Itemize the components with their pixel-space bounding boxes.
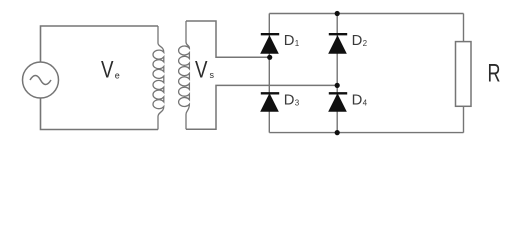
svg-text:D: D xyxy=(284,92,295,108)
resistor R body xyxy=(456,42,472,107)
svg-text:R: R xyxy=(488,61,501,88)
resistor R leads xyxy=(463,14,465,133)
wire primary loop (top rail, left side, bottom rail) xyxy=(41,26,159,130)
diode D1 xyxy=(261,34,279,53)
svg-text:s: s xyxy=(210,70,215,80)
svg-text:1: 1 xyxy=(295,39,300,48)
bridge outer rails: top rail, bottom rail xyxy=(269,14,463,133)
svg-text:e: e xyxy=(115,71,120,81)
bridge left branch wire (x=269) xyxy=(268,14,270,133)
transformer primary winding L1 xyxy=(153,26,164,130)
wire secondary top output to bridge xyxy=(186,21,270,57)
svg-text:3: 3 xyxy=(295,98,300,107)
junction dot secondary bottom / right branch xyxy=(335,83,340,88)
junction dot secondary top / left branch xyxy=(267,55,272,60)
AC source Ve symbol circle xyxy=(23,62,59,98)
junction dot bottom rail / D4 branch xyxy=(335,130,340,135)
AC source sine wave xyxy=(30,76,51,85)
svg-text:D: D xyxy=(352,33,363,49)
bridge right branch wire (x=337) xyxy=(336,14,338,133)
diode D2 xyxy=(329,34,347,53)
transformer secondary winding L2 xyxy=(179,21,190,129)
svg-text:D: D xyxy=(352,92,363,108)
junction dot top rail / D2 branch xyxy=(335,11,340,16)
svg-text:D: D xyxy=(284,33,295,49)
wire secondary bottom output to bridge xyxy=(186,85,337,129)
diode D3 xyxy=(261,93,279,111)
svg-text:V: V xyxy=(195,56,208,83)
svg-text:V: V xyxy=(101,57,114,84)
diode D4 xyxy=(329,93,347,111)
svg-text:4: 4 xyxy=(363,98,368,107)
svg-text:2: 2 xyxy=(363,39,368,48)
